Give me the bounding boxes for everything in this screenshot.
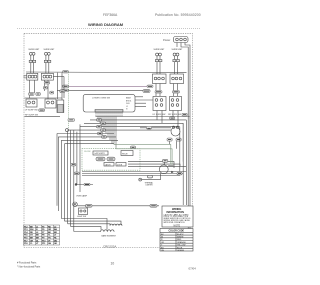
svg-text:SURF UNIT: SURF UNIT (172, 49, 184, 51)
svg-text:SURF UNIT: SURF UNIT (44, 49, 56, 51)
long vertical wire right mid (182, 123, 184, 161)
broil element coil (74, 230, 117, 238)
terminal circle node (66, 129, 69, 132)
terminal stub on left border (24, 75, 27, 78)
clock control dashed box (82, 149, 140, 171)
svg-text:FEF366A: FEF366A (103, 13, 118, 17)
bus wire left short (25, 97, 63, 99)
label oval under LR switch (155, 91, 162, 94)
wires from right switches down (156, 111, 158, 120)
bake element coil (110, 224, 122, 226)
svg-text:LF SURF SW: LF SURF SW (25, 110, 38, 112)
oval labels on bundle rows (97, 119, 107, 139)
svg-text:LIMITER: LIMITER (146, 185, 154, 187)
oven lamp switch node (75, 183, 93, 185)
infinite switch LF (27, 73, 38, 98)
pin fanout wires from EOC to bundle (96, 115, 122, 148)
svg-text:YELLOW: YELLOW (177, 245, 185, 247)
svg-text:Power: Power (163, 38, 170, 42)
color code table bottom right (160, 229, 193, 253)
svg-text:LIGHT SW: LIGHT SW (77, 216, 86, 218)
left switch row2 box B (45, 99, 56, 108)
svg-text:BLUE: BLUE (177, 247, 183, 249)
right zone verticals (114, 123, 183, 205)
svg-text:RELAY: RELAY (122, 152, 129, 155)
surface unit RR (172, 49, 184, 74)
label ovals on left feeders (71, 163, 76, 166)
label oval under RR switch (173, 91, 180, 94)
svg-text:Publication No. 5995440200: Publication No. 5995440200 (155, 13, 201, 17)
oval on clock row (177, 172, 182, 175)
infinite switch RF (41, 73, 64, 99)
vertical dotted wire (68, 72, 70, 128)
oven lamp (73, 202, 78, 207)
svg-text:SURF UNIT: SURF UNIT (154, 49, 166, 51)
long vertical wire right inner (185, 120, 187, 205)
long wire from lamp to right (77, 204, 159, 207)
svg-text:# Functional Parts: # Functional Parts (17, 262, 37, 265)
svg-text:BLACK: BLACK (177, 233, 184, 236)
wire N from power down right side (185, 43, 190, 244)
notes box bottom right (162, 206, 193, 228)
svg-text:NOTE: NOTE (174, 225, 181, 228)
wires mid-bottom (61, 219, 121, 230)
surface unit LR (154, 49, 166, 74)
power terminal block (163, 37, 188, 43)
oval label right of EOC (143, 90, 150, 93)
svg-text:WIRING DIAGRAM: WIRING DIAGRAM (88, 22, 124, 27)
bus wire L1 upper (26, 71, 187, 73)
EOC connector pin comb (95, 110, 123, 115)
svg-text:LR SURF SW: LR SURF SW (153, 114, 166, 116)
svg-text:LATCH: LATCH (105, 163, 111, 166)
svg-text:IMPROPER OPERATION.: IMPROPER OPERATION. (164, 221, 186, 224)
right switch row2 box B (170, 97, 182, 111)
svg-text:RED: RED (177, 239, 182, 241)
left feeder vertical wires (57, 124, 80, 231)
wires right of clock turning down (128, 162, 186, 168)
surface unit LF (28, 49, 40, 73)
oval on green wire (131, 146, 136, 149)
svg-text:BAKE ELEMENT: BAKE ELEMENT (102, 235, 117, 238)
wire from power to left bus (176, 43, 178, 48)
svg-text:W: W (161, 237, 163, 239)
svg-text:CLOCK: CLOCK (84, 151, 91, 153)
svg-text:RR SURF SW: RR SURF SW (168, 114, 181, 116)
dotted separator line (17, 28, 200, 30)
wire color table bottom left (24, 225, 60, 245)
svg-text:* Non-functional Parts: * Non-functional Parts (17, 265, 41, 268)
oven light switch (77, 208, 88, 218)
infinite switch RR (170, 74, 184, 96)
infinite switch LR (153, 74, 167, 96)
wire rows exiting clock box (82, 172, 186, 176)
svg-text:SURF UNIT: SURF UNIT (28, 49, 40, 51)
left switch row2 box A (26, 99, 37, 107)
label ovals between switch rows (29, 93, 34, 96)
convection fan motor (159, 159, 173, 174)
cooling fan motor right (167, 126, 181, 141)
svg-text:DOOR: DOOR (117, 164, 123, 166)
EOC right pin wires (135, 97, 153, 107)
wire L1 from power down right side (181, 43, 188, 244)
svg-text:LOWER OVEN SW: LOWER OVEN SW (92, 98, 110, 100)
bus wire lower (57, 89, 150, 92)
right switch row2 box A (153, 97, 166, 111)
junction verticals left switch zone (57, 73, 65, 100)
oval label on bundle left (68, 119, 75, 122)
svg-text:OVEN LAMP: OVEN LAMP (76, 194, 88, 197)
svg-text:07/04: 07/04 (189, 266, 197, 270)
left switch labels text (25, 109, 45, 117)
bus wire L2 mid (magenta tinted) (63, 85, 154, 87)
electronic oven control board (83, 94, 135, 112)
surface unit RF (44, 49, 56, 73)
svg-text:ORANGE: ORANGE (177, 241, 186, 244)
svg-text:CRI2152A: CRI2152A (103, 245, 116, 249)
svg-text:BROIL: BROIL (126, 100, 131, 102)
left small relay box (57, 100, 64, 113)
label oval under RF switch (44, 81, 50, 84)
svg-text:WHITE: WHITE (177, 237, 184, 239)
right switch row2 labels (153, 113, 188, 119)
svg-text:LATCH MTR: LATCH MTR (95, 152, 106, 155)
wire bundle below EOC (57, 117, 190, 144)
thermal fuse (139, 173, 161, 186)
svg-text:GREEN: GREEN (177, 250, 185, 252)
cabinet dashed border (24, 33, 192, 247)
svg-text:L1: L1 (126, 106, 128, 108)
bus wire above bundle (25, 115, 61, 117)
svg-text:10: 10 (111, 262, 115, 266)
svg-text:BAKE: BAKE (126, 97, 132, 100)
wires near fan motor (140, 127, 177, 149)
